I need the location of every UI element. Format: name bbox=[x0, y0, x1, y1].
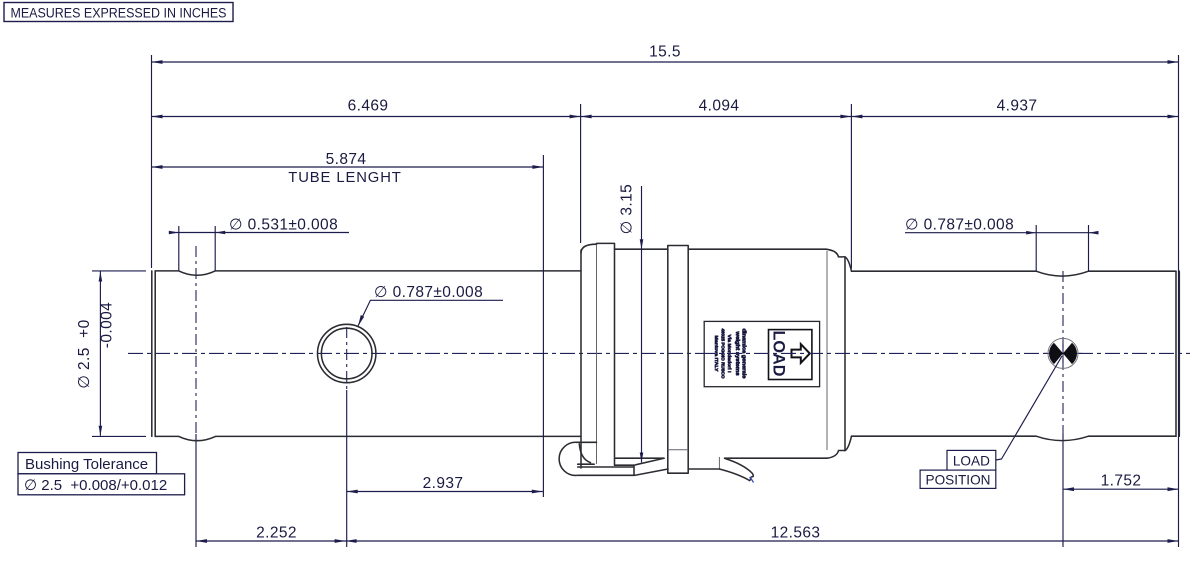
cable lower edge bbox=[719, 469, 749, 481]
tube top edge with hole dip bbox=[155, 271, 581, 275]
load position target symbol bbox=[1044, 338, 1082, 368]
right shaft end double line bbox=[1176, 271, 1179, 436]
tube left end double line bbox=[152, 271, 155, 437]
cable boundary tick bbox=[718, 457, 720, 469]
body bottom edge between bands bbox=[616, 457, 665, 459]
svg-text:2.252: 2.252 bbox=[256, 525, 297, 542]
dimension 3.15 diameter (vertical through body) bbox=[619, 184, 644, 463]
product label outer rectangle bbox=[704, 321, 819, 386]
centerline across label and body right bbox=[700, 352, 1190, 354]
right shaft top edge with hole dip bbox=[852, 271, 1177, 276]
body top edge right section bbox=[688, 248, 826, 250]
clamp hook outer curl bbox=[559, 442, 596, 475]
body top edge between bands bbox=[615, 248, 668, 250]
svg-text:∅ 2.5 +0: ∅ 2.5 +0 bbox=[76, 319, 93, 388]
clamp hook inner curl bbox=[578, 444, 595, 464]
dimension 0.531 small hole bbox=[169, 217, 349, 271]
LOAD box on label bbox=[769, 330, 812, 380]
body end face inner line bbox=[826, 251, 828, 450]
dimension 1.752 bbox=[1063, 473, 1179, 492]
svg-text:Bushing Tolerance: Bushing Tolerance bbox=[25, 456, 148, 473]
extension line below big hole axis bbox=[346, 390, 348, 547]
svg-text:∅ 0.787±0.008: ∅ 0.787±0.008 bbox=[905, 217, 1014, 234]
dimension 2.5 diameter (vertical, left) bbox=[76, 271, 146, 437]
svg-text:TUBE LENGHT: TUBE LENGHT bbox=[288, 170, 402, 186]
dimension 15.5 bbox=[152, 44, 1179, 64]
fillet body to shaft top bbox=[845, 257, 852, 271]
big hole bore circle bbox=[321, 328, 372, 379]
extension line below load position axis bbox=[1062, 434, 1064, 547]
body right edge bbox=[844, 257, 846, 451]
cable end notch bbox=[750, 477, 754, 481]
extension line x=580.6 bbox=[580, 104, 582, 243]
extension line below small hole axis bbox=[195, 434, 197, 547]
svg-text:POSITION: POSITION bbox=[926, 472, 991, 487]
big hole outer chamfer circle bbox=[318, 324, 376, 382]
svg-text:∅ 3.15: ∅ 3.15 bbox=[619, 184, 636, 234]
svg-text:1.752: 1.752 bbox=[1101, 473, 1142, 490]
clamp band 2 screw housing bbox=[668, 246, 688, 474]
LOAD POSITION callout leader bbox=[996, 356, 1062, 460]
label small print column bbox=[713, 329, 747, 379]
centerline load position axis x=1063 bbox=[1062, 271, 1064, 434]
dimension 2.937 bbox=[347, 475, 543, 493]
clamp band 2 divider line bbox=[668, 449, 688, 451]
svg-text:4.094: 4.094 bbox=[699, 98, 740, 115]
svg-text:∅ 2.5 +0.008/+0.012: ∅ 2.5 +0.008/+0.012 bbox=[24, 477, 167, 494]
body bottom edge right of screw housing bbox=[688, 468, 719, 470]
centerline small hole axis x=196 bbox=[195, 246, 197, 434]
svg-text:4.937: 4.937 bbox=[997, 98, 1038, 115]
body bottom edge right section bbox=[725, 457, 827, 459]
right shaft bottom edge with sag bbox=[852, 436, 1177, 440]
dimension 2.252 and 12.563 bottom row bbox=[196, 525, 1179, 543]
Bushing Tolerance note boxes bbox=[18, 453, 185, 495]
svg-text:MEASURES EXPRESSED IN INCHES: MEASURES EXPRESSED IN INCHES bbox=[11, 6, 227, 22]
LOAD POSITION boxes bbox=[920, 450, 996, 488]
clamp strip bottom bbox=[578, 458, 668, 475]
cable end break blue tick bbox=[750, 477, 754, 483]
centerline main horizontal axis (drawn later over label too) bbox=[128, 352, 700, 354]
svg-text:6.469: 6.469 bbox=[348, 98, 389, 115]
dimension 0.787 right hole bbox=[905, 217, 1099, 272]
body bottom-right chamfer bbox=[827, 451, 845, 459]
svg-text:5.874: 5.874 bbox=[326, 151, 367, 168]
tube bottom edge with sag bbox=[155, 436, 581, 440]
extension line x=851.4 bbox=[850, 104, 852, 269]
svg-text:LOAD: LOAD bbox=[953, 453, 990, 468]
centerline big hole axis x=346.7 bbox=[346, 327, 348, 390]
LOAD block arrow bbox=[792, 344, 810, 363]
body left edge bbox=[580, 250, 582, 468]
svg-text:15.5: 15.5 bbox=[649, 44, 681, 61]
svg-text:-0.004: -0.004 bbox=[99, 302, 116, 348]
dimension row 6.469 / 4.094 / 4.937 bbox=[152, 98, 1179, 119]
cable upper edge bbox=[725, 459, 753, 477]
body top-right chamfer bbox=[826, 249, 845, 257]
svg-text:2.937: 2.937 bbox=[423, 475, 464, 492]
dimension 5.874 TUBE LENGHT bbox=[152, 151, 544, 186]
fillet body to shaft bottom bbox=[845, 436, 852, 450]
body top-left rounded corner bbox=[581, 244, 597, 253]
svg-text:12.563: 12.563 bbox=[771, 525, 821, 542]
svg-text:∅ 0.787±0.008: ∅ 0.787±0.008 bbox=[374, 284, 483, 301]
dimension 0.787 left hole leader bbox=[358, 284, 503, 326]
extension line right end x=1178.5 bbox=[1178, 55, 1180, 547]
extension line x=543.4 bbox=[542, 155, 544, 497]
clamp band 1 bbox=[596, 245, 598, 465]
svg-text:∅ 0.531±0.008: ∅ 0.531±0.008 bbox=[229, 217, 338, 234]
extension line left end x=151.5 bbox=[151, 55, 153, 268]
note box: MEASURES EXPRESSED IN INCHES bbox=[4, 3, 233, 22]
